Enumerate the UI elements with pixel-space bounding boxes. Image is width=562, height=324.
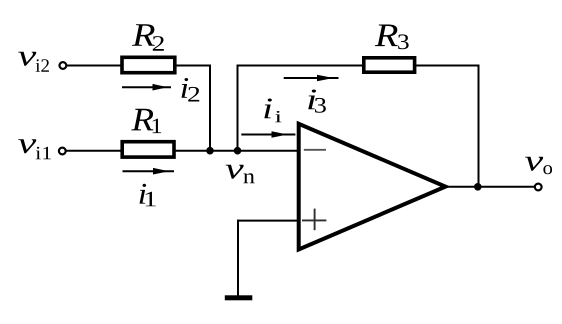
- ground: [225, 295, 253, 300]
- arrow i3: [284, 75, 339, 82]
- op-amp plus sign: [302, 209, 326, 231]
- wire feedback vertical down: [478, 65, 480, 188]
- wire R3 to corner: [415, 65, 480, 67]
- wire v_i1 terminal to R1: [66, 150, 122, 152]
- label i1: [140, 184, 156, 207]
- node output junction dot: [474, 183, 482, 191]
- label R3: [375, 24, 409, 49]
- arrow i_i: [241, 131, 295, 138]
- label i3: [308, 89, 326, 112]
- arrow i1: [123, 168, 175, 175]
- wire ground riser: [237, 220, 239, 296]
- label i_i: [264, 98, 281, 122]
- wire R2 to corner: [175, 65, 211, 67]
- wire vertical from R2 down to node: [209, 65, 211, 151]
- label v_o: [525, 157, 552, 175]
- label v_i2: [18, 52, 49, 72]
- op-amp minus sign: [304, 149, 326, 151]
- node junction dot v_n: [234, 147, 242, 155]
- resistor R3: [364, 58, 415, 72]
- label R1: [131, 109, 161, 133]
- terminal v_o: [535, 184, 542, 191]
- wire R3 row left segment: [237, 65, 364, 67]
- op-amp U1: [299, 124, 446, 250]
- label R2: [132, 24, 164, 51]
- resistor R2: [122, 57, 175, 72]
- label i2: [182, 78, 200, 102]
- wire output: [444, 186, 535, 188]
- node junction dot left: [206, 147, 214, 155]
- terminal v_i1: [59, 148, 66, 155]
- terminal v_i2: [60, 62, 67, 69]
- wire vertical node up to R3 row: [237, 65, 239, 151]
- label v_n: [226, 165, 255, 183]
- wire R1 to op-amp inverting input: [174, 150, 297, 152]
- wire non-inverting input: [237, 220, 298, 222]
- arrow i2: [122, 84, 171, 91]
- label v_i1: [18, 139, 51, 159]
- wire v_i2 terminal to R2: [66, 65, 122, 67]
- resistor R1: [122, 142, 174, 157]
